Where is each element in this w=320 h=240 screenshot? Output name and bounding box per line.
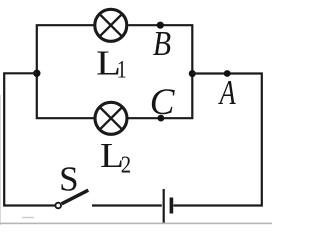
battery long plate (positive) <box>163 189 165 223</box>
scan artifact: bottom gray streak <box>0 223 272 225</box>
svg-text:S: S <box>59 159 78 198</box>
svg-text:B: B <box>153 25 171 64</box>
svg-text:1: 1 <box>117 56 127 84</box>
svg-text:C: C <box>150 82 176 123</box>
junction dot: right vertical to output wire <box>189 70 196 77</box>
scan artifact: small smudge bottom-left <box>22 217 34 218</box>
switch S pivot circle <box>55 203 61 209</box>
wire: switch to battery <box>92 204 162 206</box>
battery short thick plate (negative) <box>170 198 174 214</box>
switch S blade <box>62 190 89 204</box>
node C dot <box>158 115 165 122</box>
wire: mid-right output wire and right outer vertical down to battery <box>173 74 261 206</box>
wire: left inner vertical with top-branch lead to lamp L1 and lower-branch lead to lamp L2 <box>37 25 94 118</box>
svg-text:2: 2 <box>121 151 131 178</box>
svg-text:A: A <box>218 72 236 112</box>
lamp L1 <box>95 9 127 41</box>
wire: left tap, left outer vertical and bottom wire to switch <box>4 73 55 205</box>
node A dot <box>224 70 231 77</box>
wire: top branch right segment (lamp L1 to top-right corner) <box>128 25 192 71</box>
scan artifact: left edge gray line <box>0 95 1 225</box>
junction dot: left inner vertical to outer loop <box>33 70 40 77</box>
wire: right inner vertical (lower half, joins down to lamp L2 branch) <box>127 70 192 118</box>
node B dot <box>157 22 164 29</box>
lamp L2 <box>95 102 127 134</box>
